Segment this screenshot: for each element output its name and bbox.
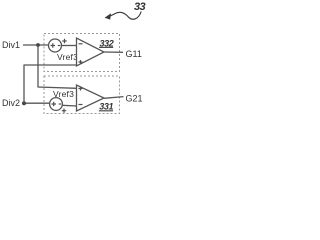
adder U3 plus sign inside: [52, 102, 57, 106]
wire horizontal into upper comparator plus input: [24, 64, 78, 66]
dashed block box (lower, around adder and comparator 331): [44, 76, 120, 114]
svg-text:332: 332: [100, 38, 114, 48]
wire horizontal into lower comparator plus input: [38, 87, 78, 88]
adder U1 minus sign inside right: [58, 45, 61, 47]
wire comparator 331 output: [104, 97, 123, 99]
comparator 331 plus pin mark: [79, 87, 83, 91]
comparator U4 triangle 331: [77, 85, 105, 111]
wire Div1 input: [23, 44, 49, 46]
svg-text:Div1: Div1: [2, 40, 20, 50]
comparator U2 triangle 332: [77, 38, 105, 66]
figure reference squiggle arrow: [105, 12, 142, 20]
adder U3 plus sign at bottom-right input: [62, 109, 66, 113]
wire from Div2 node up to upper comparator plus input: [23, 65, 25, 103]
adder U3 minus sign inside right: [59, 103, 62, 105]
adder U1 summing circle (upper): [49, 39, 62, 52]
adder U1 plus sign at top-right input: [62, 39, 66, 43]
comparator 332 plus pin mark: [79, 60, 83, 64]
svg-text:33: 33: [134, 1, 146, 13]
svg-text:Div2: Div2: [2, 98, 20, 108]
svg-text:G11: G11: [126, 49, 142, 59]
adder U1 plus sign inside: [51, 43, 56, 47]
adder U3 summing circle (lower): [50, 98, 63, 111]
wire Div2 input: [23, 102, 50, 104]
comparator 331 minus pin mark: [79, 104, 83, 106]
comparator 332 minus pin mark: [79, 43, 83, 45]
svg-text:Vref3: Vref3: [53, 89, 74, 99]
svg-text:Vref3: Vref3: [57, 52, 78, 62]
wire adder to comparator 331 minus input: [62, 104, 77, 107]
wire from Div1 node down to lower comparator plus input: [37, 45, 39, 87]
node junction on Div2 wire: [22, 101, 26, 105]
svg-text:G21: G21: [126, 93, 143, 103]
wire comparator 332 output: [104, 51, 123, 53]
dashed block box (upper, around adder and comparator 332): [44, 34, 120, 72]
svg-text:331: 331: [99, 102, 113, 112]
wire adder to comparator 332 minus input: [62, 45, 78, 47]
node junction on Div1 wire: [36, 43, 40, 47]
